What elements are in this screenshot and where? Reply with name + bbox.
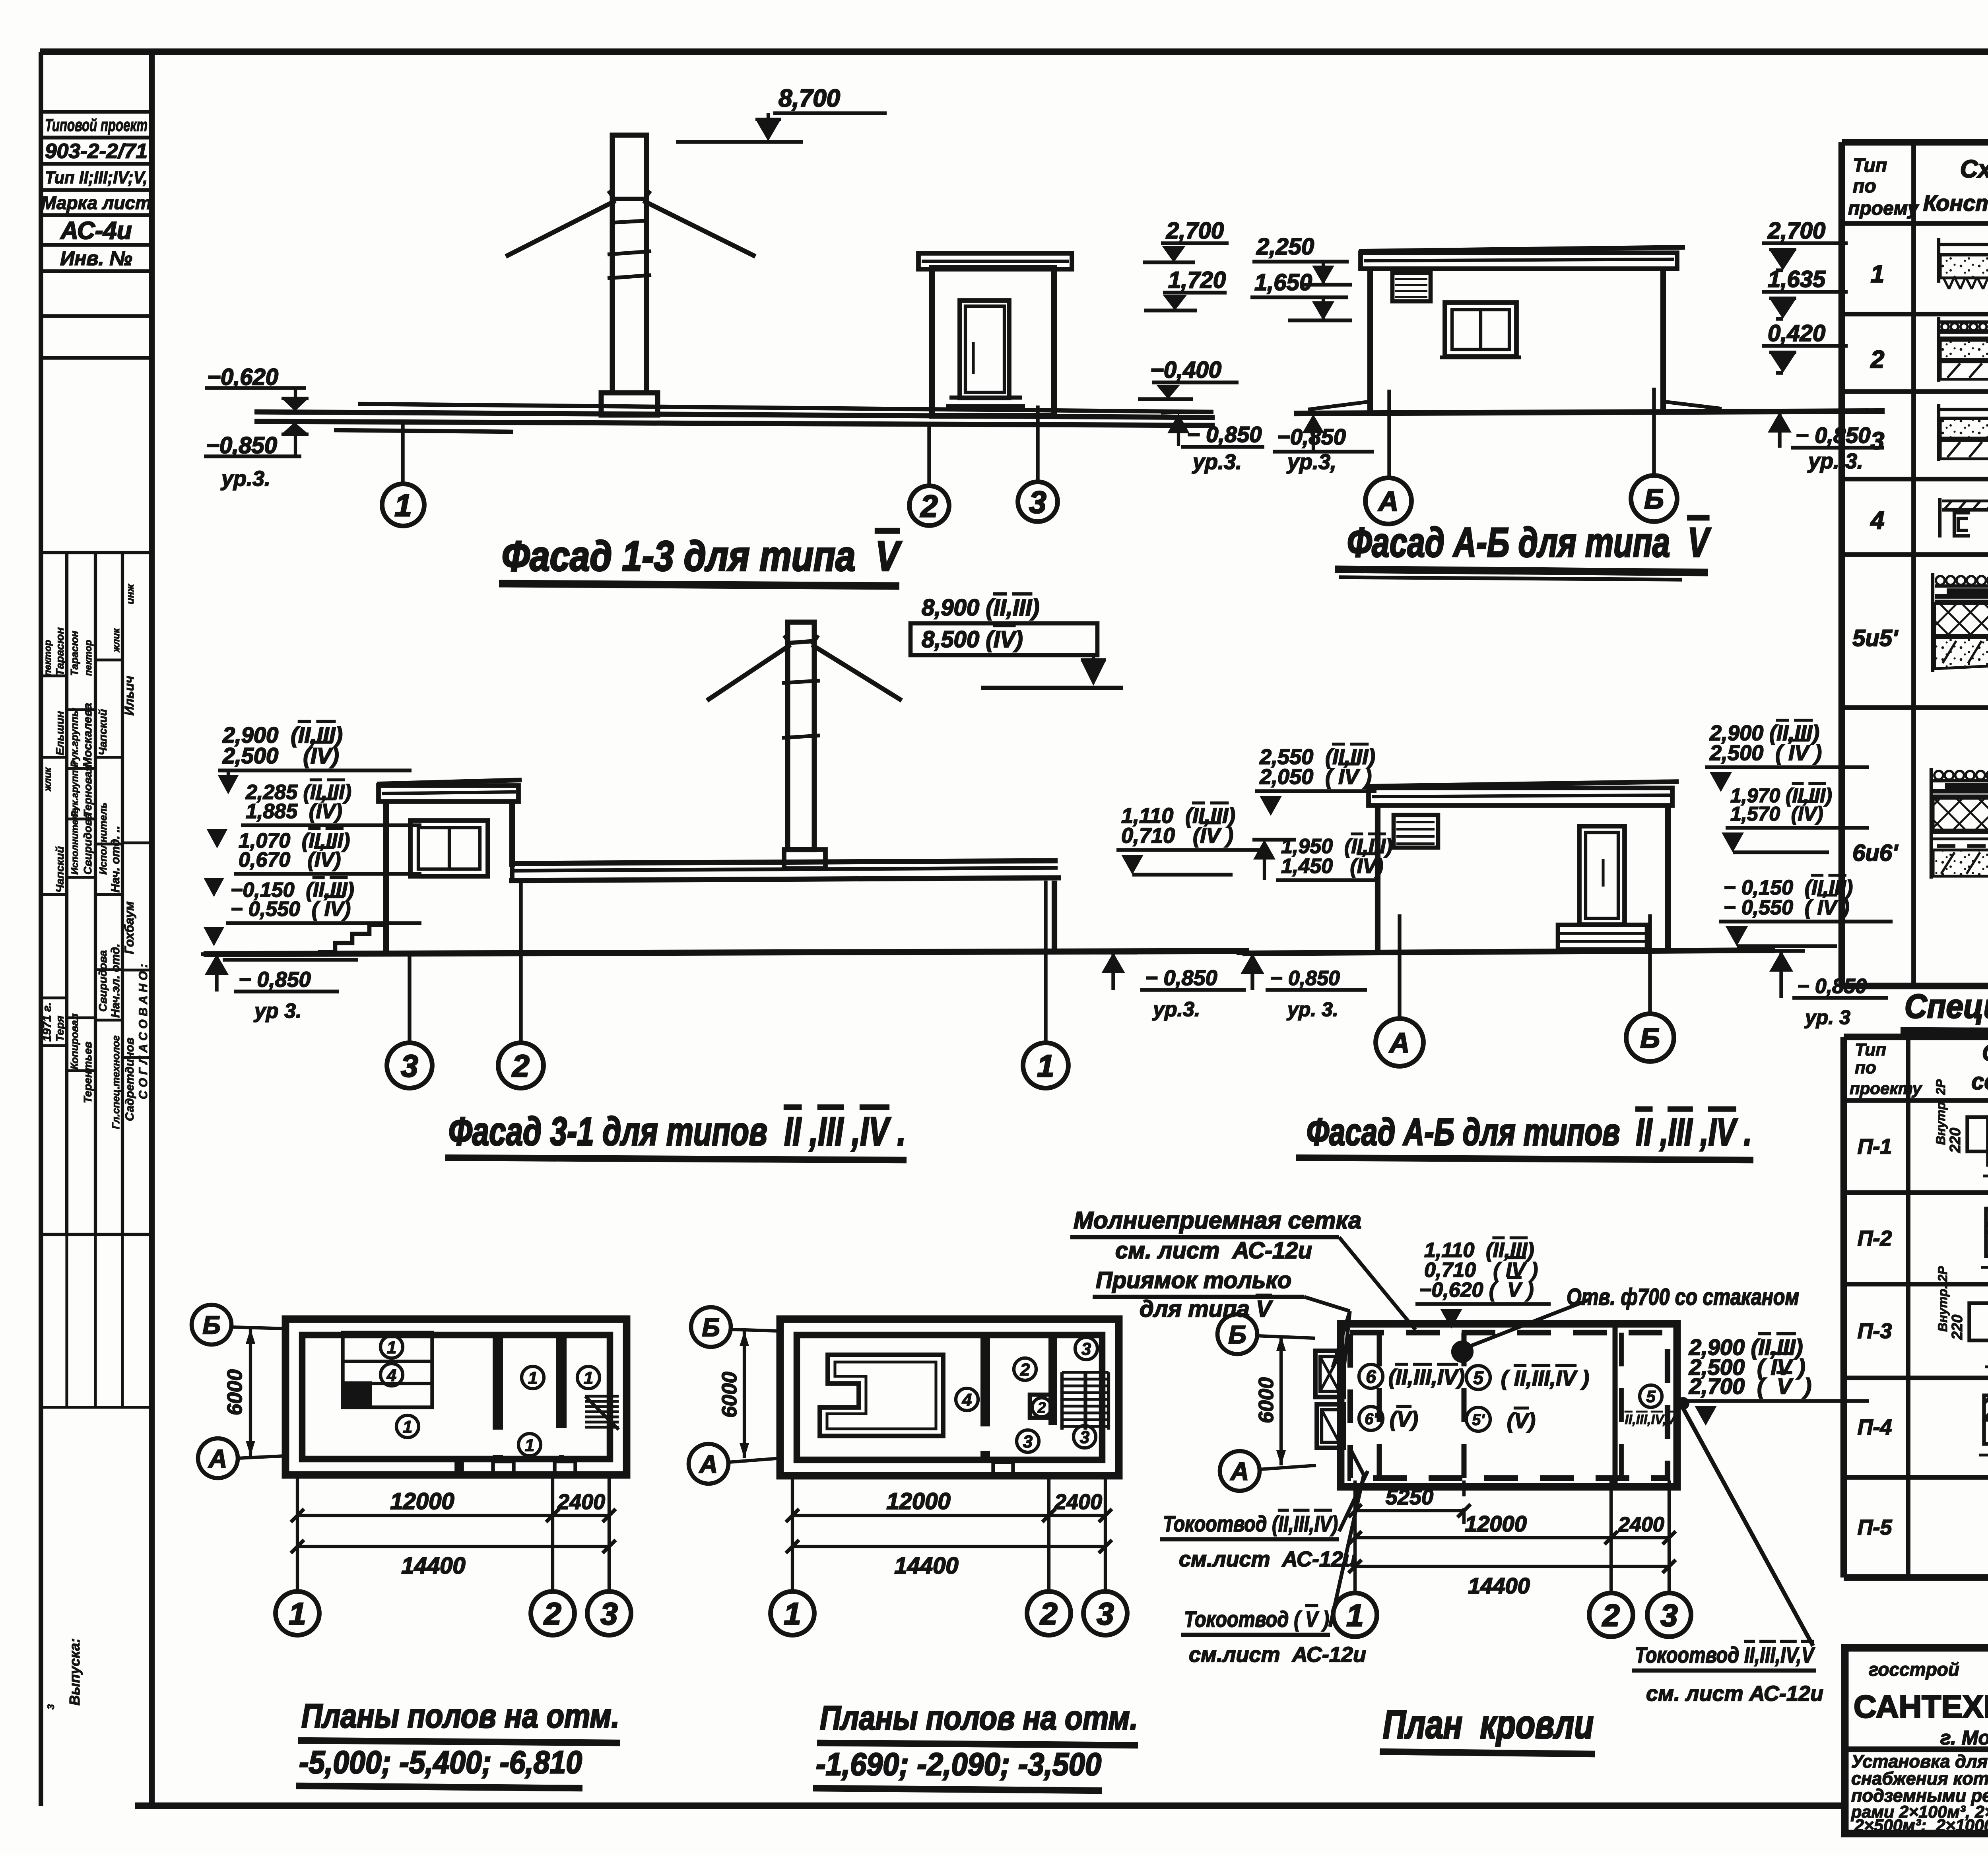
svg-text:Тип II;III;IV;V,: Тип II;III;IV;V, [45, 168, 148, 187]
svg-text:Внутр. 2Р: Внутр. 2Р [1934, 1079, 1948, 1145]
svg-text:5: 5 [1646, 1387, 1656, 1406]
svg-text:5и5': 5и5' [1852, 625, 1899, 651]
svg-text:1,635: 1,635 [1768, 266, 1826, 292]
svg-text:−0,400: −0,400 [1150, 357, 1221, 383]
svg-text:А: А [208, 1444, 227, 1473]
svg-text:Планы полов на отм.: Планы полов на отм. [301, 1697, 619, 1735]
svg-text:Внутр. 2Р: Внутр. 2Р [1936, 1266, 1950, 1332]
svg-text:сечения: сечения [1971, 1069, 1988, 1094]
svg-text:2: 2 [511, 1048, 529, 1083]
svg-text:Терентьев: Терентьев [82, 1042, 94, 1103]
svg-text:− 0,850: − 0,850 [1187, 422, 1262, 447]
svg-text:6: 6 [1366, 1366, 1376, 1387]
svg-text:3: 3 [46, 1704, 56, 1709]
svg-text:Исполнитель: Исполнитель [97, 802, 109, 875]
svg-text:3: 3 [1080, 1428, 1089, 1447]
svg-text:(II,III,IV): (II,III,IV) [1388, 1365, 1465, 1389]
svg-text:по: по [1855, 1058, 1876, 1077]
svg-text:инж: инж [124, 583, 136, 604]
svg-text:− 0,850: − 0,850 [1270, 967, 1340, 990]
svg-text:8,500 (IV): 8,500 (IV) [922, 627, 1023, 652]
svg-text:− 0,850: − 0,850 [239, 968, 311, 992]
svg-text:2,250: 2,250 [1256, 234, 1314, 260]
svg-text:1: 1 [403, 1417, 412, 1437]
svg-text:2: 2 [1037, 1400, 1046, 1416]
svg-text:− 0,550 ( IV): − 0,550 ( IV) [231, 898, 351, 921]
svg-text:4: 4 [962, 1390, 972, 1410]
svg-text:Марка лист: Марка лист [41, 192, 151, 213]
svg-text:1: 1 [1037, 1048, 1054, 1083]
svg-text:1: 1 [525, 1436, 534, 1455]
svg-text:Планы полов на отм.: Планы полов на отм. [820, 1699, 1138, 1737]
svg-text:II,III,IV,V: II,III,IV,V [1625, 1412, 1677, 1427]
svg-text:ур 3.: ур 3. [253, 999, 302, 1023]
svg-text:1,450 (IV): 1,450 (IV) [1281, 855, 1383, 878]
svg-text:220: 220 [1949, 1315, 1966, 1340]
svg-text:1: 1 [289, 1596, 306, 1631]
svg-text:Садретдинов: Садретдинов [123, 1038, 136, 1121]
svg-text:по: по [1853, 176, 1876, 197]
svg-text:− 0,850: − 0,850 [1796, 423, 1870, 448]
svg-text:1: 1 [784, 1596, 801, 1631]
svg-text:14400: 14400 [894, 1553, 958, 1579]
svg-text:-1,690; -2,090; -3,500: -1,690; -2,090; -3,500 [816, 1746, 1101, 1782]
svg-text:1,570 (IV): 1,570 (IV) [1730, 803, 1823, 825]
svg-text:6и6': 6и6' [1852, 840, 1899, 866]
svg-text:ур. 3.: ур. 3. [1286, 998, 1338, 1021]
svg-text:5': 5' [1472, 1411, 1485, 1428]
svg-text:2400: 2400 [557, 1490, 605, 1514]
svg-text:1: 1 [1871, 260, 1884, 288]
svg-text:(V): (V) [1390, 1407, 1418, 1431]
svg-text:4: 4 [386, 1366, 396, 1385]
svg-text:План кровли: План кровли [1383, 1702, 1594, 1747]
svg-text:Терновая: Терновая [82, 765, 94, 817]
svg-text:2: 2 [920, 489, 938, 524]
svg-text:− 0,850: − 0,850 [1145, 966, 1217, 990]
svg-text:3: 3 [1871, 427, 1884, 455]
svg-text:Б: Б [1228, 1320, 1246, 1349]
svg-text:Молниеприемная сетка: Молниеприемная сетка [1074, 1207, 1361, 1234]
svg-text:12000: 12000 [886, 1488, 950, 1514]
svg-text:1: 1 [584, 1368, 593, 1388]
svg-text:А: А [1389, 1027, 1410, 1058]
svg-text:см. лист АС-12и: см. лист АС-12и [1115, 1238, 1312, 1263]
svg-text:2: 2 [543, 1596, 561, 1631]
svg-text:12000: 12000 [390, 1488, 454, 1514]
svg-text:А: А [699, 1450, 718, 1479]
svg-text:( II,III,IV ): ( II,III,IV ) [1501, 1366, 1589, 1390]
svg-text:Копировал: Копировал [68, 1013, 80, 1069]
svg-text:-5,000; -5,400; -6,810: -5,000; -5,400; -6,810 [299, 1744, 582, 1780]
svg-text:2,700 ( V ): 2,700 ( V ) [1689, 1374, 1811, 1399]
svg-text:6000: 6000 [718, 1372, 741, 1418]
svg-text:Тарасюн: Тарасюн [54, 627, 66, 676]
svg-text:для типа V: для типа V [1140, 1296, 1273, 1322]
svg-text:2,500 (IV): 2,500 (IV) [222, 743, 339, 768]
svg-text:220: 220 [1947, 1128, 1964, 1153]
svg-text:ур.3,: ур.3, [1286, 450, 1336, 474]
svg-text:Б: Б [1644, 483, 1664, 514]
svg-text:ур. 3.: ур. 3. [1807, 449, 1863, 473]
svg-text:1: 1 [394, 488, 412, 523]
svg-text:1971 г.: 1971 г. [41, 1002, 54, 1042]
svg-text:П-3: П-3 [1858, 1319, 1892, 1343]
svg-text:Конструкции: Конструкции [1923, 190, 1988, 215]
svg-text:−0,620 ( V ): −0,620 ( V ) [1419, 1279, 1534, 1302]
svg-text:6000: 6000 [223, 1369, 247, 1415]
svg-text:ур.3.: ур.3. [1192, 450, 1242, 474]
svg-text:1: 1 [387, 1338, 396, 1357]
svg-text:А: А [1378, 486, 1399, 517]
svg-text:3: 3 [1023, 1432, 1033, 1451]
svg-text:14400: 14400 [1468, 1573, 1530, 1598]
svg-text:903-2-2/71: 903-2-2/71 [45, 140, 148, 163]
svg-text:6000: 6000 [1255, 1377, 1278, 1423]
svg-text:жлик: жлик [43, 767, 53, 792]
svg-text:8,900 (II,III): 8,900 (II,III) [922, 595, 1040, 621]
svg-text:Чапский: Чапский [97, 709, 109, 755]
svg-text:1: 1 [528, 1368, 538, 1388]
svg-text:проекту: проекту [1850, 1079, 1923, 1098]
svg-text:Тарасюн: Тарасюн [68, 631, 80, 676]
svg-text:2: 2 [1039, 1596, 1057, 1631]
svg-text:госстрой: госстрой [1869, 1659, 1959, 1680]
svg-text:5: 5 [1473, 1368, 1484, 1388]
svg-text:Гл.спец.технолог: Гл.спец.технолог [110, 1035, 122, 1129]
svg-text:3: 3 [600, 1596, 617, 1631]
svg-text:0,710 (IV ): 0,710 (IV ) [1121, 824, 1233, 848]
svg-text:Рук.группы: Рук.группы [68, 708, 80, 767]
svg-text:пектор: пектор [83, 640, 94, 676]
svg-text:Спецификация перемычек на зд: Спецификация перемычек на здание [1905, 988, 1988, 1025]
svg-text:2,050 ( IV ): 2,050 ( IV ) [1259, 765, 1372, 789]
svg-text:Выпуска:: Выпуска: [66, 1638, 83, 1706]
svg-text:Токоотвод ( V ): Токоотвод ( V ) [1184, 1607, 1329, 1632]
svg-text:1,885 (IV): 1,885 (IV) [246, 800, 342, 823]
svg-text:2: 2 [1870, 346, 1884, 373]
svg-text:см. лист АС-12и: см. лист АС-12и [1646, 1682, 1823, 1706]
svg-text:3: 3 [401, 1048, 418, 1083]
svg-text:Чапский: Чапский [54, 846, 66, 893]
svg-text:г. Москва: г. Москва [1940, 1727, 1988, 1749]
svg-text:− 0,550 ( IV ): − 0,550 ( IV ) [1724, 896, 1850, 919]
svg-text:2: 2 [1602, 1598, 1619, 1633]
svg-text:Типовой проект: Типовой проект [45, 115, 148, 135]
svg-text:1,650: 1,650 [1254, 270, 1312, 295]
svg-text:14400: 14400 [401, 1553, 465, 1579]
svg-text:жлик: жлик [111, 628, 122, 653]
svg-text:−0,850: −0,850 [206, 433, 277, 458]
svg-text:Токоотвод (II,III,IV): Токоотвод (II,III,IV) [1163, 1511, 1338, 1536]
svg-text:Б: Б [702, 1313, 720, 1342]
svg-text:Фасад 3-1 для типов II ,III ,: Фасад 3-1 для типов II ,III ,IV . [448, 1109, 906, 1154]
svg-text:ур. 3: ур. 3 [1804, 1006, 1850, 1028]
svg-text:ур.3.: ур.3. [220, 467, 270, 491]
svg-text:Токоотвод II,III,IV,V: Токоотвод II,III,IV,V [1635, 1642, 1815, 1667]
svg-text:2,700: 2,700 [1166, 218, 1224, 244]
svg-text:0,670 (IV): 0,670 (IV) [239, 848, 341, 871]
svg-text:Б: Б [1640, 1023, 1660, 1054]
svg-text:4: 4 [1870, 507, 1884, 534]
svg-text:Инв. №: Инв. № [60, 247, 132, 270]
svg-text:5250: 5250 [1386, 1485, 1433, 1509]
svg-text:3: 3 [1660, 1598, 1677, 1633]
svg-text:0,420: 0,420 [1768, 320, 1825, 346]
svg-text:Схема: Схема [1982, 1040, 1988, 1066]
svg-text:Свиридова: Свиридова [97, 950, 109, 1012]
svg-text:пектор: пектор [43, 640, 53, 676]
svg-text:3: 3 [1029, 485, 1046, 520]
svg-text:2400: 2400 [1054, 1490, 1102, 1514]
svg-text:П-4: П-4 [1858, 1415, 1892, 1439]
svg-text:ур.3.: ур.3. [1152, 998, 1200, 1021]
svg-text:Схема: Схема [1960, 155, 1988, 183]
svg-text:проему: проему [1848, 198, 1919, 219]
svg-text:1,720: 1,720 [1168, 267, 1226, 293]
svg-text:Свиридова: Свиридова [82, 813, 94, 875]
svg-text:8,700: 8,700 [779, 85, 840, 112]
svg-text:Гохбаум: Гохбаум [122, 901, 136, 954]
svg-text:2×500м³; 2×1000м³.: 2×500м³; 2×1000м³. [1854, 1816, 1988, 1835]
svg-text:2: 2 [1020, 1360, 1030, 1380]
svg-text:Теря: Теря [54, 1016, 66, 1042]
svg-text:Ельшин: Ельшин [54, 711, 66, 755]
svg-text:П-1: П-1 [1858, 1135, 1892, 1158]
svg-text:см.лист АС-12и: см.лист АС-12и [1189, 1643, 1366, 1667]
svg-text:Фасад 1-3 для типа V: Фасад 1-3 для типа V [502, 533, 902, 580]
svg-text:Нач.эл. отд.: Нач.эл. отд. [109, 944, 122, 1018]
svg-text:САНТЕХПРОЕКТ: САНТЕХПРОЕКТ [1854, 1689, 1988, 1724]
svg-text:6': 6' [1365, 1410, 1378, 1428]
svg-text:2400: 2400 [1618, 1513, 1664, 1536]
svg-text:3: 3 [1097, 1596, 1114, 1631]
svg-text:П-2: П-2 [1858, 1226, 1892, 1250]
svg-text:12000: 12000 [1465, 1511, 1527, 1536]
svg-text:АС-4и: АС-4и [60, 217, 132, 244]
svg-text:Фасад А-Б для типа V: Фасад А-Б для типа V [1347, 520, 1711, 566]
svg-text:1: 1 [1346, 1598, 1363, 1633]
svg-text:см.лист АС-12и: см.лист АС-12и [1179, 1547, 1356, 1571]
svg-text:Исполнитель: Исполнитель [70, 808, 80, 875]
svg-text:Тип: Тип [1855, 1040, 1886, 1059]
svg-text:Ильич: Ильич [122, 676, 136, 716]
svg-text:Москалева: Москалева [81, 703, 94, 767]
svg-text:Отв. ф700 со стаканом: Отв. ф700 со стаканом [1567, 1284, 1799, 1310]
svg-text:−0,620: −0,620 [207, 364, 278, 390]
svg-text:(V): (V) [1507, 1409, 1536, 1433]
svg-text:2,700: 2,700 [1767, 218, 1825, 244]
svg-text:Б: Б [202, 1311, 220, 1339]
svg-text:Фасад А-Б для типов II ,III ,: Фасад А-Б для типов II ,III ,IV . [1307, 1111, 1752, 1153]
svg-text:Тип: Тип [1853, 155, 1887, 176]
svg-text:А: А [1230, 1457, 1249, 1486]
svg-text:П-5: П-5 [1858, 1515, 1893, 1539]
svg-text:С О Г Л А С О В А Н О :: С О Г Л А С О В А Н О : [137, 964, 150, 1099]
svg-text:3: 3 [1081, 1339, 1091, 1359]
svg-text:2,500 ( IV ): 2,500 ( IV ) [1709, 741, 1822, 765]
svg-text:Приямок только: Приямок только [1096, 1267, 1291, 1293]
svg-text:Нач. отд. ..: Нач. отд. .. [109, 826, 122, 893]
